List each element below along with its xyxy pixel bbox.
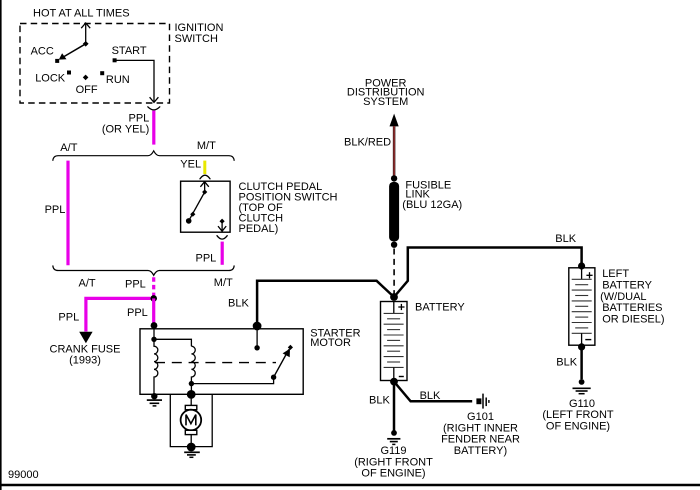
svg-text:ACC: ACC (31, 46, 54, 58)
ground G101 (441, 394, 520, 457)
svg-text:LOCK: LOCK (35, 73, 66, 85)
ground G119 (354, 430, 433, 479)
wire BLK left battery to G110 (556, 347, 581, 379)
svg-text:BATTERY: BATTERY (415, 301, 465, 313)
node solenoid windings junction (151, 337, 156, 342)
ground at solenoid hold-in winding (147, 393, 162, 406)
wire to pull-in winding (154, 339, 191, 346)
svg-text:PEDAL): PEDAL) (239, 223, 279, 235)
wire to motor armature (190, 394, 192, 406)
connector at clutch switch bottom (217, 236, 227, 239)
node splice S1 (150, 295, 157, 302)
svg-text:BLK: BLK (556, 356, 577, 368)
wire BLK starter to battery (228, 281, 394, 323)
wire PPL to crank fuse (58, 298, 150, 343)
connector at clutch switch top (200, 175, 210, 179)
node below fusible link (391, 242, 397, 248)
clutch pedal position switch box (181, 181, 338, 235)
contact OFF (76, 75, 98, 97)
svg-text:PPL: PPL (125, 279, 146, 291)
svg-text:G119: G119 (380, 445, 406, 457)
svg-text:FENDER NEAR: FENDER NEAR (441, 434, 520, 446)
left battery (569, 268, 665, 345)
svg-text:A/T: A/T (79, 277, 96, 289)
wire BLK battery to G119 (369, 382, 394, 431)
node CRANK FUSE (1993) (50, 344, 121, 367)
svg-text:M/T: M/T (197, 140, 216, 152)
node at starter box top (151, 322, 158, 329)
svg-text:SWITCH: SWITCH (175, 33, 218, 45)
svg-text:BLK/RED: BLK/RED (344, 136, 391, 148)
contact ACC (31, 46, 60, 63)
svg-text:MOTOR: MOTOR (310, 337, 351, 349)
svg-text:PPL: PPL (58, 311, 79, 323)
starter motor box (140, 327, 361, 394)
svg-text:START: START (112, 45, 147, 57)
ignition switch feed wire with up arrow (81, 23, 90, 44)
wire BLK battery to G101 (394, 382, 472, 402)
contact START (112, 45, 147, 62)
ground at motor (184, 452, 200, 457)
svg-text:OF ENGINE): OF ENGINE) (361, 467, 425, 479)
svg-text:PPL: PPL (45, 204, 66, 216)
solenoid pull-in winding (191, 346, 195, 394)
node pull-in winding bottom (189, 381, 194, 386)
wire PPL junction to starter (127, 298, 154, 323)
wire PPL M/T branch (196, 242, 223, 265)
svg-text:A/T: A/T (60, 142, 77, 154)
ignition switch wiper arm to ACC (59, 44, 86, 60)
svg-text:PPL: PPL (196, 252, 217, 264)
solenoid switch movable contact (271, 375, 276, 380)
node battery positive (390, 293, 398, 301)
wire PPL A/T branch (45, 161, 68, 266)
clutch switch output contact with arrow (218, 219, 226, 232)
clutch switch upper contact (diamond) (202, 189, 207, 194)
svg-text:BLK: BLK (228, 298, 249, 310)
solenoid hold-in winding (154, 339, 158, 394)
wire winding to solenoid switch (191, 377, 273, 383)
svg-text:OFF: OFF (76, 84, 98, 96)
contact RUN (100, 71, 130, 86)
solenoid switch arm with arrow (274, 345, 293, 377)
ground G110 (542, 379, 614, 433)
ignition switch box (20, 22, 223, 103)
svg-text:M/T: M/T (214, 277, 233, 289)
wire motor to ground (190, 435, 192, 447)
svg-text:OF ENGINE): OF ENGINE) (546, 421, 610, 433)
wire fusible link to battery (dashed) (393, 249, 395, 294)
svg-text:OR DIESEL): OR DIESEL) (602, 314, 664, 326)
node above fusible link (391, 175, 397, 181)
svg-text:(1993): (1993) (69, 354, 101, 366)
wire from START contact down to connector (116, 60, 158, 102)
wire BLK battery to left battery (394, 233, 582, 297)
clutch switch input arrow (200, 182, 208, 192)
svg-text:LEFT: LEFT (602, 268, 629, 280)
svg-text:BATTERY: BATTERY (602, 279, 652, 291)
wire BLK/RED (344, 126, 394, 176)
svg-text:HOT AT ALL TIMES: HOT AT ALL TIMES (33, 8, 130, 20)
svg-text:SYSTEM: SYSTEM (363, 96, 408, 108)
brace merge A/T - M/T (53, 265, 234, 290)
wire solenoid feed inside box (153, 326, 155, 340)
node motor ground junction (187, 443, 196, 452)
node left battery negative (578, 343, 585, 350)
wire PPL (OR YEL) (102, 111, 154, 145)
battery (381, 301, 466, 380)
svg-text:BLK: BLK (555, 233, 576, 245)
connector at ignition switch output (148, 107, 160, 110)
svg-text:BATTERY): BATTERY) (454, 445, 507, 457)
solenoid switch fixed contact (254, 326, 259, 350)
node battery negative (390, 378, 398, 386)
svg-text:G110: G110 (569, 398, 595, 410)
svg-text:(BLU 12GA): (BLU 12GA) (402, 199, 462, 211)
svg-text:YEL: YEL (180, 159, 201, 171)
svg-text:G101: G101 (467, 411, 494, 423)
ignition switch rotor contact (diamond) (83, 41, 89, 47)
fusible link (BLU 12GA) (389, 179, 462, 241)
contact LOCK (35, 71, 71, 85)
motor case loop (170, 394, 212, 446)
node POWER DISTRIBUTION SYSTEM (347, 77, 425, 126)
svg-text:PPL: PPL (127, 307, 148, 319)
node BLK at starter box top (253, 322, 262, 331)
clutch switch arm (186, 192, 205, 224)
svg-text:(W/DUAL: (W/DUAL (600, 291, 646, 303)
svg-text:(RIGHT INNER: (RIGHT INNER (443, 422, 518, 434)
wire PPL dashed below merge (152, 277, 155, 296)
solenoid plunger linkage (dashed) (155, 362, 276, 364)
brace split A/T - M/T (53, 140, 234, 161)
svg-text:RUN: RUN (106, 74, 130, 86)
svg-text:BATTERIES: BATTERIES (602, 302, 662, 314)
svg-text:BLK: BLK (420, 390, 441, 402)
svg-text:(LEFT FRONT: (LEFT FRONT (542, 409, 614, 421)
node at starter box bottom (motor feed) (187, 390, 196, 399)
motor armature M (181, 405, 202, 434)
svg-text:(OR YEL): (OR YEL) (102, 123, 149, 135)
svg-text:BLK: BLK (369, 394, 390, 406)
wire YEL M/T branch (180, 159, 205, 174)
node left battery positive (578, 262, 585, 269)
svg-text:99000: 99000 (8, 469, 39, 481)
